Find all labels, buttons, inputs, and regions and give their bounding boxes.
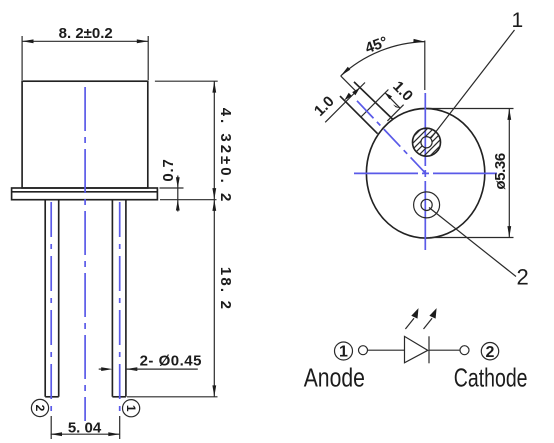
dimension 1.0 (tab width, lower)	[311, 83, 365, 123]
diode triangle	[405, 336, 428, 362]
cathode terminal circle	[460, 346, 469, 355]
index tab on can edge	[340, 82, 393, 134]
svg-text:Anode: Anode	[304, 364, 365, 392]
45° reference line (black extension)	[341, 76, 357, 92]
blue centerline vertical (top view)	[424, 93, 426, 250]
dimension 8.2±0.2 (top width)	[22, 25, 148, 80]
svg-text:2- Ø0.45: 2- Ø0.45	[140, 352, 202, 369]
dimension ø5.36 (can diameter)	[428, 109, 514, 238]
pin label circle 2	[31, 399, 48, 416]
svg-text:2: 2	[33, 405, 47, 412]
leader line to label 1	[431, 30, 515, 138]
blue centerline horizontal (top view)	[354, 172, 497, 174]
wire diode to cathode	[429, 349, 460, 351]
pin label circle 1 (anode)	[335, 342, 353, 361]
centerline of right lead (blue)	[119, 202, 121, 415]
svg-text:8. 2±0.2: 8. 2±0.2	[59, 25, 113, 42]
svg-text:1: 1	[124, 405, 138, 412]
can outline (top view circle)	[366, 109, 484, 239]
dimension 2- Ø0.45 (lead diameter callout)	[99, 352, 202, 371]
svg-text:2: 2	[486, 344, 495, 361]
svg-text:ø5.36: ø5.36	[492, 153, 509, 189]
leader line to label 2	[429, 208, 516, 277]
cathode bar	[428, 336, 430, 363]
flange (base plate)	[12, 188, 158, 200]
svg-text:0.7: 0.7	[160, 158, 177, 181]
pin label circle 1	[123, 400, 140, 417]
light emission arrow 1	[405, 308, 418, 329]
centerline of left lead (blue)	[50, 202, 52, 415]
centerline of can (blue)	[84, 87, 86, 421]
lead pin 1 (right)	[112, 200, 126, 397]
svg-text:4. 32±0. 2: 4. 32±0. 2	[217, 108, 234, 205]
svg-text:18. 2: 18. 2	[217, 267, 234, 311]
svg-text:1: 1	[512, 9, 524, 32]
svg-text:1: 1	[339, 344, 348, 361]
dimension 18.2 (lead length)	[127, 200, 234, 397]
anode terminal circle	[359, 346, 368, 355]
vertical centerline extension (black)	[424, 41, 426, 91]
wire anode to diode	[368, 349, 405, 351]
pin 1 hole (hatched)	[401, 117, 457, 173]
dimension 0.7 (flange thickness)	[160, 158, 217, 211]
dimension 4.32±0.2 (can height)	[155, 81, 234, 204]
svg-text:Cathode: Cathode	[454, 363, 528, 392]
pin label circle 2 (cathode)	[481, 343, 498, 361]
can body outline	[22, 81, 148, 188]
lead pin 2 (left)	[45, 200, 59, 397]
blue 45° centerline through tab	[357, 101, 426, 174]
svg-text:2: 2	[517, 265, 529, 290]
dimension 1.0 (tab protrusion, upper)	[361, 78, 416, 121]
45° angular dimension arc	[341, 33, 425, 75]
light emission arrow 2	[424, 308, 437, 329]
dimension 5.04 (lead spacing)	[51, 416, 120, 439]
pin 2 hole	[414, 192, 440, 218]
